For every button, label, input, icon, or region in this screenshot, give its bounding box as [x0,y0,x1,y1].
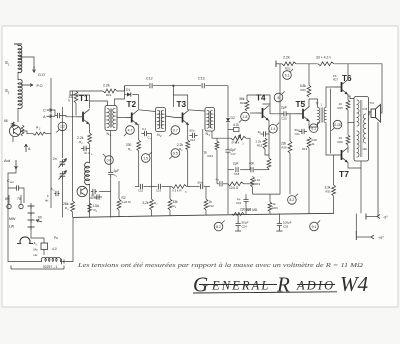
ferrite coil S1 [5,45,22,72]
svg-text:8.2: 8.2 [216,225,221,229]
label MW [9,217,16,221]
label R29 [302,147,308,151]
capacitor 40w left [91,193,102,200]
resistor 35k R10 [245,95,249,111]
svg-text:2μF: 2μF [281,106,287,110]
label 2.2k R4 [77,136,84,145]
svg-text:ENERAL: ENERAL [211,279,270,293]
ferrite coil S2 [5,79,22,108]
wire R19 to rail y194 [252,187,254,194]
svg-text:C18: C18 [234,172,240,176]
wire T4 base from pot [250,112,256,114]
IF transformer N1 [105,106,117,131]
svg-text:4n: 4n [45,199,49,203]
battery +9V terminal [356,214,384,241]
label 33k [69,95,73,103]
capacitor 2uF C20 [281,106,289,121]
main ground bus [73,213,334,217]
resistor 3.3k R31 [332,185,336,196]
svg-text:MW: MW [9,217,16,221]
svg-text:Po: Po [54,236,58,240]
wire C17 to bus [227,155,229,214]
wire collector to Tr1 [309,99,318,108]
wire mixer to A2 [21,131,33,134]
wire S1 to S2 [17,72,19,80]
svg-text:4.7k: 4.7k [233,123,239,127]
wire T2 collector [138,95,140,110]
resistor 0.1k R19 [251,177,261,188]
wire A2 to node [46,133,51,135]
capacitor 2uF C5 [108,169,119,178]
wire T6 emitter down [347,94,349,100]
arrow A [47,115,53,118]
wire T5 emitter chain to bus [308,148,310,214]
label 2.2k R8 [177,143,183,152]
label 33k R9 [173,200,179,209]
svg-text:He: He [34,253,38,257]
voltmeter 1.8v [239,112,249,122]
wire IF1 bottom down [110,131,112,171]
arrow switch 60 [36,220,42,223]
resistor 33ohm [318,62,334,66]
label 220 mohm [246,208,258,212]
wire C7 right to R7 col [150,134,152,187]
resistor 2.2k R15 [263,138,267,149]
label 3.3k R31 [325,186,332,194]
svg-text:R27: R27 [333,78,339,82]
terminal 70 [17,195,23,209]
capacitor 100uF C25 [276,214,291,231]
transistor T6 [335,80,349,95]
antenna rod terminal [14,44,22,46]
resistor 10k AF [223,182,244,186]
resistor 6.8k R20 [307,64,311,107]
capacitor C15 [138,184,144,193]
resistor 2.2k R22 [282,62,296,66]
label Ant [4,158,11,163]
transistor T2 [125,110,139,125]
capacitor 4n C6 [81,146,93,156]
resistor 40k base [267,155,271,170]
svg-text:C22: C22 [236,201,242,205]
label 10 R26 [338,136,344,144]
label 10k [229,186,239,190]
svg-text:D2: D2 [231,116,235,120]
wire IF3 left down [202,129,204,187]
capacitor 1uF C22 [236,194,249,214]
pickup loop symbol [17,237,33,244]
wire S2 bottom down to mixer [17,108,19,122]
label 4n [45,199,49,203]
svg-text:C13: C13 [198,77,205,81]
label 40 [52,247,57,251]
arrow C [47,109,53,112]
wire R16 [289,134,291,194]
capacitor osc feedback [91,189,97,194]
label He [34,253,38,257]
svg-text:C14: C14 [190,138,196,142]
IF transformer N2 [156,108,166,132]
svg-text:Ant: Ant [4,158,11,163]
bottom label wire [11,266,64,270]
svg-text:T4: T4 [256,94,266,103]
svg-text:8.2: 8.2 [290,198,295,202]
wire top feed left [70,91,103,95]
voltmeter 1.5v [141,152,151,162]
label N3 [206,132,211,137]
voltmeter 1.4v [269,123,279,133]
svg-text:1.8: 1.8 [243,115,248,119]
voltmeter 8.2v right [288,194,298,204]
capacitor Cant [13,185,21,190]
capacitor 60n C14 [189,129,197,143]
svg-text:33 + 4.2 v: 33 + 4.2 v [316,56,331,60]
label T4 [256,94,266,103]
wire Tr1 sec bottom to T7 base [326,123,335,156]
variable capacitor CV2 [59,171,67,180]
wire base bias rail [330,89,332,154]
svg-text:1.5: 1.5 [143,156,148,160]
IF transformer N3 [205,108,215,132]
svg-text:60: 60 [38,216,42,220]
wire coil S1 tap to G.O switch point [20,57,34,70]
svg-text:0.7: 0.7 [173,128,178,132]
wire to corner [117,86,125,91]
wire Cant left [8,184,13,188]
svg-text:Mo: Mo [34,248,38,252]
wire R31 to bus [333,196,335,214]
wire mid tap [348,122,354,124]
label 22k R16 [281,142,287,150]
svg-text:R26: R26 [338,140,344,144]
resistor 1k R12 [204,187,208,216]
svg-text:68: 68 [4,119,8,123]
label LW [9,225,15,229]
wire to T7 collector [347,145,349,153]
svg-text:R15: R15 [257,144,263,148]
svg-text:Les tensions ont été mesurées: Les tensions ont été mesurées par rappor… [77,262,364,269]
wire tuning rail x62.4 [61,107,63,158]
svg-text:R23: R23 [273,206,279,210]
wire left rail [7,188,9,258]
loop antenna coil [41,257,60,261]
wire to loop coil [8,258,42,262]
svg-text:R21: R21 [106,93,112,97]
antenna terminal arrow [8,160,17,184]
resistor R2 0.22M [117,181,121,217]
svg-text:W4: W4 [340,272,368,296]
label 230 R5 [126,143,132,152]
transistor T5 [296,106,310,121]
capacitor 60n C [198,181,203,190]
wire C A to cap [53,110,55,116]
junction dot [172,85,174,107]
voltmeter 8.2 below bus [214,220,224,230]
label 2.2k R21 [103,84,112,97]
capacitor 0.1 C7 [141,127,151,141]
label 1.5A R6 [93,204,100,213]
label 2.2k R22 [283,56,291,71]
label F6 R27 [333,74,339,82]
wire loop coil to bus [66,217,73,261]
label A [43,114,46,119]
label Tr1 [316,102,323,107]
resistor 28k [71,201,75,217]
sub rail y186.5 [135,186,210,188]
wire cap to T1 base [63,116,76,117]
svg-text:R31: R31 [326,190,332,194]
label 33+4.2v [316,56,331,60]
label 6.8k [4,119,8,123]
wire Tr2 top to T6 area [348,96,354,99]
label 6.8k R20 [300,84,306,92]
svg-text:LW: LW [9,225,15,229]
svg-text:R22: R22 [285,67,291,71]
svg-text:43Ω: 43Ω [363,148,368,151]
wire pot to T4 base rail [246,138,250,170]
svg-text:9.1: 9.1 [285,73,290,77]
wire rail y169.7 [228,169,269,171]
wire speaker bottom down [377,122,379,217]
label 220mV [240,208,252,212]
svg-text:T3: T3 [177,100,187,109]
diode D1 [125,88,139,97]
logo GENERAL RADIO W4 [193,272,368,297]
wire T2 emitter [138,124,140,140]
svg-text:2.2k: 2.2k [103,84,110,88]
arrowhead G.O [33,66,36,73]
wire T7 emitter down [348,162,361,168]
top bus with C12 C13 [125,85,229,87]
svg-text:R25: R25 [338,106,344,110]
svg-text:70: 70 [17,197,21,201]
label P.O [37,84,43,88]
svg-text:D1: D1 [126,88,130,92]
svg-text:1.2: 1.2 [60,125,65,129]
svg-text:60n: 60n [198,181,203,185]
wire osc cap right [99,191,111,193]
label 2.2k R15 [256,140,263,148]
svg-text:C: C [43,108,46,113]
resistor 2.2k R4 [88,133,92,144]
driver transformer Tr1 [318,107,327,122]
wire T1 emitter down [89,124,91,133]
oscillator transistor circle [77,186,87,196]
svg-text:C15: C15 [138,189,144,193]
svg-text:C21: C21 [295,132,301,136]
svg-text:0.6: 0.6 [107,158,112,162]
wire emitter chain [89,144,91,163]
wire Cant right [22,188,24,203]
wire R5 to bus [138,151,140,187]
label T5 [296,100,306,109]
wire Tr1 primary bottom [309,123,318,128]
label T1 [79,94,89,103]
label 1k R12 [209,200,215,208]
wire T5 emitter down [308,121,310,129]
wire supply rail x72.6 [72,91,74,201]
variable capacitor CV1 [59,159,67,168]
wire IF1 to T2 base [117,117,125,119]
svg-text:R20: R20 [301,88,307,92]
transistor T4 [256,106,270,121]
label T2 [127,100,137,109]
label 1.8k [301,100,306,104]
label 3.2k R7 [143,201,159,206]
wire T3 emitter [187,124,189,140]
svg-text:0.1: 0.1 [142,127,147,131]
resistor 1k R23 [268,194,272,214]
wire below varicaps [61,179,63,218]
transistor T1 [76,109,90,124]
resistor 22k R16 [288,114,292,153]
arrow P.O tap [21,84,33,87]
svg-text:9.1: 9.1 [312,225,317,229]
svg-text:0.05: 0.05 [363,108,368,111]
wire T2 col to sub rail [134,152,136,187]
voltmeter 0.7v T3 [169,126,179,136]
label R2 0.22M [122,196,132,204]
label 35k R10 [239,97,246,105]
svg-text:40n: 40n [249,162,255,166]
capacitor 50u C21 [295,128,308,136]
svg-text:3,2k: 3,2k [143,201,149,205]
svg-text:10 k Ω: 10 k Ω [229,186,239,190]
capacitor 40n C19 [249,162,255,173]
node line x51 [50,78,52,208]
capacitor C16 [156,184,162,193]
svg-text:92297→1: 92297→1 [43,265,57,269]
label 60 [38,216,42,220]
label 28k [63,202,69,211]
label T3 [177,100,187,109]
arrow up A [25,144,31,152]
wire R15 down [265,131,269,155]
wire R10 to T4 collector [263,95,271,104]
svg-text:+9°: +9° [378,236,384,240]
svg-text:6.5: 6.5 [173,151,178,155]
wire switch to A6 [31,232,44,243]
oscillator coil L2 [85,162,90,185]
wire T1 collector to IF1 [90,101,108,106]
resistor 1k R13 [215,138,219,150]
label 10 R25 [338,102,344,110]
wire T4 collector to C20 [270,104,282,114]
wire collector feed T1 [70,94,90,96]
wire emitter col to R23 [266,155,268,158]
label 40w [90,196,100,200]
svg-text:R12: R12 [209,204,215,208]
resistor R1b [21,125,24,136]
wire R10 top [247,94,270,96]
handwritten note [77,262,364,269]
component A6 box [34,242,48,250]
capacitor 50uF C24 below bus [235,214,249,231]
voltmeter 6.1v [309,122,319,132]
svg-text:C24: C24 [242,224,248,228]
svg-text:220 ΜΩ: 220 ΜΩ [246,208,258,212]
label R18 [312,138,318,146]
svg-text:C25: C25 [283,224,289,228]
wire speaker feed top [369,108,383,113]
svg-text:Tr2: Tr2 [370,101,375,105]
svg-text:4.7: 4.7 [128,128,133,132]
resistor 10 R25 [346,100,350,110]
resistor R1a [12,122,15,142]
transistor T3 [176,110,190,125]
svg-text:C20: C20 [282,117,288,121]
svg-text:T6: T6 [342,74,352,83]
resistor 1.5k R6 inline [88,203,92,213]
resistor 33k R9 [168,187,172,216]
wire Tr1 sec top to T6 base [326,87,335,108]
wire IF1 top to D1 feed [115,86,125,106]
label P 6k [232,141,244,146]
wire R13 down [216,150,218,184]
label 1k R23 [273,202,279,210]
transistor TO1 (converter, circled) [9,125,20,136]
label 1k R13 [204,151,214,159]
svg-text:T2: T2 [127,100,137,109]
wire Tr2 bottom down to bus [360,161,362,213]
wire 10k to R19 [244,183,253,185]
label Tr2 [370,101,375,105]
wire rail y194 [253,64,281,194]
voltmeter circle 1.2v [56,122,66,132]
svg-text:R: R [276,273,290,297]
svg-text:0.22 M: 0.22 M [122,200,132,204]
resistor 2.2k R8 [186,140,190,150]
svg-text:40: 40 [91,193,95,197]
wire T7 bias rail [333,155,335,185]
resistor A2 horizontal [33,126,46,136]
svg-text:A: A [43,114,46,119]
svg-text:R13: R13 [208,154,214,158]
wire C5 to bus [110,177,112,217]
wire T3 collector to IF3 [188,110,205,111]
wire T1 collector up [89,95,91,108]
wire T5 collector [308,99,310,107]
component 47k box [228,123,239,132]
voltmeter 9.1 below bus [310,220,320,230]
svg-text:C17: C17 [231,152,237,156]
wire T2 collector to IF2 [139,110,156,112]
transistor T7 [335,148,349,163]
svg-text:2μF: 2μF [233,162,239,166]
label Mo [34,248,38,252]
resistor R18 [307,137,311,148]
wire T4 base rail bottom [249,138,251,170]
terminal 69 [5,195,11,209]
label G.O [38,73,45,77]
wire T5 base bias tap [289,114,291,134]
capacitor 2uF C18 [233,162,240,177]
label 2n [53,157,57,161]
label N1 [107,132,112,137]
svg-text:3.3 k R: 3.3 k R [172,189,182,193]
resistor 2.2k R21 horizontal [103,89,117,93]
label Cant [7,179,14,184]
label T7 [339,169,349,179]
svg-text:8: 8 [278,96,280,100]
svg-text:2n: 2n [53,157,57,161]
voltmeter 4.7v T2 [124,126,134,136]
svg-text:C12: C12 [146,77,153,81]
svg-text:F: F [47,194,49,198]
top bus right [276,61,382,109]
wire D2 down [227,123,229,148]
svg-text:R10: R10 [240,101,246,105]
